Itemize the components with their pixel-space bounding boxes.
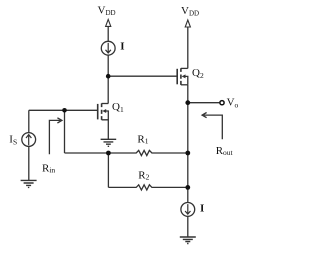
- svg-text:Q2: Q2: [192, 67, 204, 80]
- svg-text:I: I: [120, 41, 124, 53]
- svg-text:VDD: VDD: [181, 5, 199, 17]
- svg-text:R1: R1: [137, 134, 148, 146]
- svg-text:Q1: Q1: [112, 101, 124, 114]
- svg-text:IS: IS: [9, 133, 17, 146]
- svg-text:Rout: Rout: [216, 145, 234, 157]
- svg-text:I: I: [200, 202, 204, 214]
- svg-text:VDD: VDD: [98, 5, 116, 17]
- svg-text:R2: R2: [138, 170, 149, 182]
- svg-text:Vo: Vo: [227, 97, 239, 110]
- svg-text:Rin: Rin: [42, 163, 55, 175]
